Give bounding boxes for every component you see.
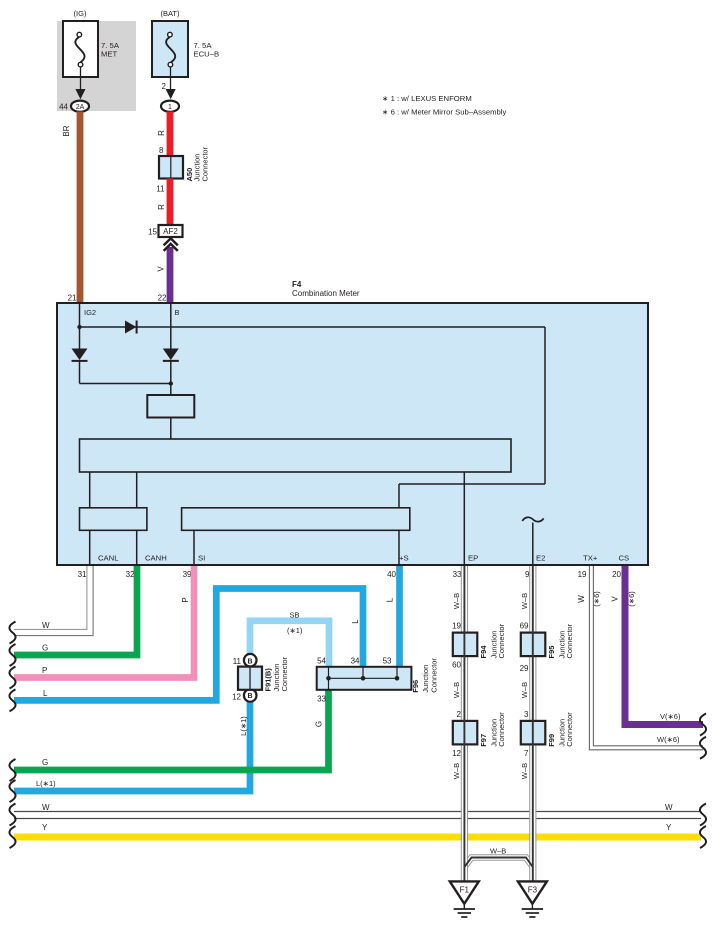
svg-text:W–B: W–B (452, 682, 461, 698)
svg-text:19: 19 (578, 570, 587, 579)
wire E2 internal (532, 523, 534, 565)
wire W TX+ (pin19, double line) (589, 566, 703, 750)
wire W-B link black stripe (464, 858, 532, 868)
wire BR (brown) to terminal 21 (77, 112, 84, 304)
svg-text:F95: F95 (547, 646, 556, 659)
wire CANH internal lower (136, 530, 138, 564)
svg-text:8: 8 (159, 146, 164, 155)
connector AF2 (159, 225, 183, 237)
svg-text:L(∗1): L(∗1) (239, 716, 248, 736)
svg-text:V: V (610, 596, 619, 602)
svg-text:Connector: Connector (280, 656, 289, 691)
break squiggles right edge (700, 714, 706, 849)
svg-text:E2: E2 (536, 554, 545, 563)
node on IG2 line (77, 325, 81, 329)
svg-text:(∗1): (∗1) (287, 626, 303, 635)
svg-text:F4: F4 (292, 280, 302, 289)
wire W pin31 (white, double line) (14, 566, 93, 636)
ground F3 (518, 881, 547, 917)
connector oval 2A pin 44 (71, 101, 89, 112)
svg-text:(BAT): (BAT) (160, 9, 180, 18)
wire W full width (double line) (14, 812, 701, 819)
wire V (violet) to terminal 22 (167, 247, 174, 303)
svg-text:SI: SI (198, 554, 205, 563)
fuse 7.5A ECU-B (BAT) (152, 21, 188, 77)
E2 tilde symbol (522, 517, 543, 521)
svg-text:11: 11 (233, 657, 242, 666)
svg-text:MET: MET (101, 50, 118, 59)
svg-text:(∗6): (∗6) (592, 591, 601, 607)
label F91(B) Junction Connector (264, 656, 290, 691)
svg-text:IG2: IG2 (84, 308, 96, 317)
wire L(*1) (blue) F91 pin12 to left (14, 701, 250, 791)
wire W-B EP black stripe (463, 566, 465, 882)
svg-text:B: B (247, 693, 252, 700)
svg-text:ECU–B: ECU–B (194, 50, 220, 59)
wire W-B E2 black stripe (532, 566, 534, 882)
svg-text:W–B: W–B (520, 682, 529, 698)
svg-text:P: P (42, 666, 47, 675)
svg-text:CANL: CANL (98, 554, 119, 563)
junction connector F91(B) (238, 654, 262, 702)
svg-text:11: 11 (156, 184, 165, 193)
svg-text:∗ 1 : w/ LEXUS ENFORM: ∗ 1 : w/ LEXUS ENFORM (382, 94, 472, 103)
gray background box behind IG fuse (57, 21, 136, 111)
svg-text:W: W (42, 621, 50, 630)
svg-text:20: 20 (612, 570, 621, 579)
junction connector F94 (453, 633, 478, 657)
svg-text:∗ 6 : w/ Meter Mirror Sub–Asse: ∗ 6 : w/ Meter Mirror Sub–Assembly (382, 108, 507, 117)
svg-text:EP: EP (468, 554, 478, 563)
wire internal +S feed horizontal (399, 483, 545, 485)
svg-text:2: 2 (162, 82, 167, 91)
svg-text:B: B (175, 308, 180, 317)
svg-text:3: 3 (524, 710, 529, 719)
junction connector A50 (159, 156, 183, 179)
junction connector F97 (453, 721, 478, 745)
internal main bar box (80, 439, 512, 472)
svg-text:R: R (157, 130, 166, 136)
svg-text:19: 19 (452, 622, 461, 631)
svg-text:B: B (247, 658, 252, 665)
svg-text:12: 12 (232, 693, 241, 702)
svg-text:12: 12 (452, 749, 461, 758)
svg-text:Y: Y (42, 823, 48, 832)
wire L pin40 (blue) to F96 pin 53 (396, 566, 403, 668)
wire G (green) F96 pin33 to left (14, 689, 329, 770)
arrow into connector 2A (75, 89, 85, 99)
svg-text:69: 69 (520, 622, 529, 631)
svg-text:60: 60 (452, 660, 461, 669)
wire junction horizontal (80, 383, 171, 385)
svg-text:V(∗6): V(∗6) (660, 712, 681, 721)
svg-text:W: W (665, 803, 673, 812)
svg-text:(∗6): (∗6) (627, 591, 636, 607)
wire W-B EP (pin33) vertical (461, 566, 467, 882)
svg-text:Connector: Connector (565, 712, 574, 747)
wire L (blue) pin L to F96 pin 34 (14, 589, 363, 701)
svg-text:+S: +S (399, 554, 409, 563)
connector oval 1 (161, 101, 179, 112)
wire IG2 internal vertical (79, 303, 81, 349)
svg-text:15: 15 (148, 228, 157, 237)
svg-text:2A: 2A (76, 104, 85, 111)
wire R (red) oval 1 to A50 (167, 112, 174, 158)
svg-text:CS: CS (619, 554, 630, 563)
label F99 Junction Connector (547, 712, 574, 747)
wire EP internal (463, 472, 465, 564)
wire +S feed vertical (398, 484, 400, 508)
svg-text:L: L (43, 689, 48, 698)
label A50 Junction Connector (185, 146, 210, 181)
svg-text:L: L (351, 619, 360, 624)
wire fuse IG to connector (80, 67, 82, 90)
wire B internal vertical (170, 303, 172, 349)
svg-text:F97: F97 (479, 734, 488, 747)
wire diode D2 to resistor (170, 361, 172, 395)
wire G pin32 (green) (14, 566, 137, 655)
svg-text:P: P (181, 597, 190, 602)
svg-text:F96: F96 (411, 680, 420, 693)
wire V CS (pin20, violet) (625, 566, 703, 725)
svg-text:W–B: W–B (452, 763, 461, 779)
svg-text:Connector: Connector (201, 146, 210, 181)
wire W-B E2 (pin9) vertical (530, 566, 536, 882)
svg-text:R: R (157, 204, 166, 210)
wire CANH internal upper (136, 472, 138, 508)
svg-text:L(∗1): L(∗1) (36, 779, 56, 788)
svg-text:W–B: W–B (520, 593, 529, 609)
shield chevrons (164, 238, 178, 251)
wire fuse BAT to connector (170, 67, 172, 90)
svg-text:Connector: Connector (497, 623, 506, 658)
combination meter F4 box (57, 303, 648, 565)
svg-text:W–B: W–B (520, 763, 529, 779)
svg-text:40: 40 (387, 570, 396, 579)
svg-text:W: W (577, 595, 586, 603)
svg-text:SB: SB (290, 611, 300, 620)
svg-text:F94: F94 (479, 645, 488, 659)
svg-text:Y: Y (666, 823, 672, 832)
label F96 Junction Connector (411, 658, 438, 693)
svg-text:33: 33 (453, 570, 462, 579)
wire internal top horizontal (80, 326, 546, 328)
svg-text:31: 31 (78, 570, 87, 579)
svg-text:44: 44 (59, 102, 68, 111)
label F97 Junction Connector (479, 712, 506, 747)
svg-text:TX+: TX+ (583, 554, 598, 563)
diode D3 (IG2 to B, pointing right) (125, 321, 136, 334)
svg-text:39: 39 (183, 570, 192, 579)
internal long box 2 (182, 508, 410, 531)
wire +S internal lower (398, 530, 400, 564)
wire CANL internal lower (89, 530, 91, 564)
svg-text:G: G (42, 644, 48, 653)
svg-text:AF2: AF2 (163, 227, 178, 236)
junction connector F99 (521, 721, 546, 745)
svg-text:54: 54 (317, 657, 326, 666)
svg-text:Connector: Connector (429, 658, 438, 693)
ground F1 (450, 881, 479, 917)
svg-text:W–B: W–B (490, 847, 506, 856)
svg-text:F1: F1 (460, 886, 470, 895)
svg-text:22: 22 (158, 294, 167, 303)
internal resistor box (147, 395, 194, 418)
svg-text:W–B: W–B (452, 593, 461, 609)
svg-text:G: G (315, 721, 324, 727)
svg-text:53: 53 (383, 657, 392, 666)
svg-text:Connector: Connector (497, 712, 506, 747)
arrow into connector 1 (166, 89, 176, 99)
svg-text:Combination Meter: Combination Meter (292, 289, 360, 298)
svg-text:32: 32 (126, 570, 135, 579)
wire R (red) A50 to AF2 (167, 179, 174, 227)
internal CAN box (80, 508, 147, 531)
svg-text:F99: F99 (547, 734, 556, 747)
node junction B/IG2 (169, 381, 173, 385)
wire resistor to main bar (170, 418, 172, 440)
svg-text:F3: F3 (528, 886, 538, 895)
svg-text:29: 29 (520, 664, 529, 673)
svg-text:21: 21 (68, 294, 77, 303)
wire CANL internal upper (89, 472, 91, 508)
junction connector F96 (317, 667, 412, 690)
diode D2 (B, pointing down) (163, 349, 179, 361)
wire diode D1 to bus (79, 361, 81, 384)
svg-text:2: 2 (457, 710, 462, 719)
svg-text:CANH: CANH (145, 554, 167, 563)
wire P pin39 (pink) (14, 566, 194, 678)
wire SB (light blue) F91 to F96 pin 54 (250, 621, 329, 668)
svg-text:7: 7 (524, 749, 529, 758)
break squiggles left edge (9, 622, 15, 849)
svg-text:W: W (42, 803, 50, 812)
svg-text:V: V (157, 266, 166, 272)
svg-text:(IG): (IG) (74, 9, 87, 18)
diode D1 (IG2, pointing down) (72, 349, 88, 361)
wire W-B ground link (464, 858, 532, 868)
junction connector F95 (521, 633, 546, 657)
svg-text:1: 1 (168, 104, 172, 111)
label F94 Junction Connector (479, 623, 506, 658)
wire SI internal (193, 530, 195, 564)
svg-text:BR: BR (62, 125, 71, 136)
wire internal right vertical (544, 327, 546, 484)
label F95 Junction Connector (547, 623, 574, 658)
svg-text:G: G (42, 758, 48, 767)
svg-text:Connector: Connector (565, 623, 574, 658)
wire Y full width (yellow) (14, 834, 701, 841)
svg-text:W(∗6): W(∗6) (657, 735, 680, 744)
svg-text:33: 33 (317, 695, 326, 704)
svg-text:34: 34 (351, 657, 360, 666)
fuse 7.5A MET (IG) (63, 21, 98, 77)
svg-text:L: L (386, 597, 395, 602)
